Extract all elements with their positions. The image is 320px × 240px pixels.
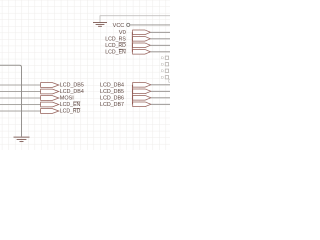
- port LCD_RD: [41, 109, 81, 115]
- ground GND1 (bottom-left): [14, 137, 30, 142]
- wire net VCC: [130, 24, 170, 26]
- svg-text:V0: V0: [119, 30, 126, 36]
- port LCD_DB4: [41, 89, 84, 95]
- component body U? (grey box, partially cropped): [0, 65, 22, 136]
- wire net MOSI: [0, 97, 41, 99]
- wire net LCD_EN: [0, 104, 41, 106]
- svg-text:D: D: [161, 62, 164, 67]
- svg-text:LCD_RS: LCD_RS: [105, 37, 126, 43]
- port LCD_EN: [41, 102, 81, 108]
- wire net LCD_EN: [150, 51, 170, 53]
- wire net V0: [150, 31, 170, 33]
- svg-text:LCD_RD: LCD_RD: [105, 43, 126, 49]
- svg-text:LCD_DB5: LCD_DB5: [60, 83, 84, 89]
- port MOSI: [41, 96, 74, 102]
- pin pads (right edge, cropped connector): [165, 56, 168, 79]
- svg-text:LCD_DB4: LCD_DB4: [100, 83, 124, 89]
- overline right LCD_RD: [119, 42, 126, 44]
- wire net LCD_DB5: [151, 90, 170, 92]
- port LCD_EN: [105, 49, 170, 55]
- wire net LCD_DB6: [151, 97, 170, 99]
- svg-text:D: D: [161, 55, 164, 60]
- svg-text:D: D: [161, 75, 164, 80]
- port LCD_DB6 (right): [100, 95, 170, 101]
- overline left LCD_RD: [73, 107, 80, 109]
- port LCD_RD: [105, 43, 170, 49]
- ground GND2 (top): [93, 16, 170, 26]
- wire net LCD_DB4: [151, 84, 170, 86]
- svg-text:D: D: [161, 68, 164, 73]
- svg-text:LCD_DB7: LCD_DB7: [100, 102, 124, 108]
- overline right LCD_EN: [119, 48, 126, 50]
- port LCD_RS: [105, 36, 170, 42]
- svg-text:D: D: [168, 79, 170, 84]
- overline left LCD_EN: [73, 101, 80, 103]
- svg-text:MOSI: MOSI: [60, 96, 74, 102]
- svg-text:LCD_RD: LCD_RD: [60, 109, 81, 115]
- port LCD_DB7 (right): [100, 102, 170, 108]
- svg-text:LCD_EN: LCD_EN: [60, 102, 81, 108]
- wire net LCD_DB4: [0, 91, 41, 93]
- bus/junction line (top-right group): [131, 32, 133, 52]
- wire net LCD_DB7: [151, 103, 170, 105]
- port LCD_DB4 (right): [100, 82, 170, 88]
- wire net LCD_RD: [0, 110, 41, 112]
- svg-text:LCD_DB4: LCD_DB4: [60, 89, 84, 95]
- power port VCC: [113, 23, 170, 29]
- wire net LCD_RD: [150, 44, 170, 46]
- svg-text:VCC: VCC: [113, 23, 125, 29]
- svg-text:LCD_DB6: LCD_DB6: [100, 96, 124, 102]
- bus/junction line (bottom-right group): [131, 85, 133, 105]
- port LCD_DB5 (right): [100, 89, 170, 95]
- wire net LCD_RS: [150, 38, 170, 40]
- svg-text:LCD_EN: LCD_EN: [105, 50, 126, 56]
- port LCD_DB5: [41, 83, 84, 89]
- wire net LCD_DB5: [0, 84, 41, 86]
- port V0: [119, 30, 170, 36]
- svg-text:LCD_DB5: LCD_DB5: [100, 89, 124, 95]
- pin designator glyphs beside pads: [161, 55, 164, 79]
